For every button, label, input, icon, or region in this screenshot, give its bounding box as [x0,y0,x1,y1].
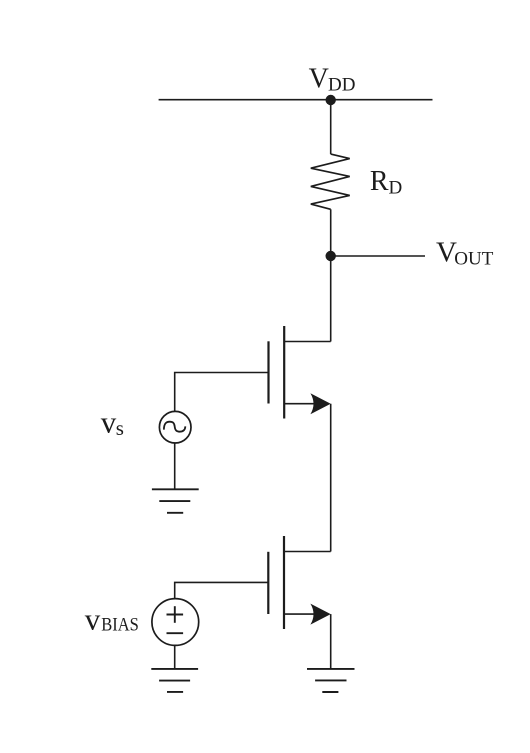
wire VDD rail [159,99,433,101]
wire resistor RD bottom to node VOUT [330,209,332,256]
wire M1 source down to M2 drain [330,404,332,552]
plus sign in vBIAS [167,606,184,623]
wire node VOUT to label [331,255,425,257]
ground below vBIAS [151,669,198,692]
transistor M2 channel bar [283,536,285,629]
svg-text:V: V [309,64,329,95]
wire node VOUT down to M1 drain [330,256,332,342]
wire vs circle to ground [174,443,176,489]
svg-text:R: R [370,166,389,197]
svg-text:BIAS: BIAS [101,616,139,636]
wire VDD rail to resistor RD top [330,100,332,154]
source vBIAS circle [152,599,199,646]
resistor RD [311,154,350,209]
svg-text:v: v [101,405,117,440]
ground below M2 source [307,669,355,692]
transistor M1 source arrow [310,393,330,414]
transistor M1 source segment [284,403,315,405]
wire M1 gate line [175,373,269,412]
sine symbol inside vs [164,422,185,432]
transistor M2 source arrow [310,604,330,625]
source vs circle [159,411,191,443]
svg-text:v: v [85,602,101,637]
minus sign in vBIAS [167,632,184,634]
transistor M2 source segment [284,613,315,615]
wire M2 gate line [175,582,269,598]
ground below vs [152,489,199,513]
svg-text:D: D [389,178,403,199]
node VDD junction dot [326,95,336,105]
wire M2 source down to ground [330,614,332,669]
transistor M2 gate bar [267,552,269,614]
svg-text:s: s [116,416,124,440]
node VOUT junction dot [326,251,336,261]
svg-text:OUT: OUT [454,249,493,270]
transistor M2 drain segment [284,551,331,553]
transistor M1 drain segment [284,341,331,343]
transistor M1 gate bar [267,341,269,403]
wire vBIAS circle to ground [174,645,176,669]
transistor M1 channel bar [283,326,285,419]
svg-text:DD: DD [328,75,355,96]
